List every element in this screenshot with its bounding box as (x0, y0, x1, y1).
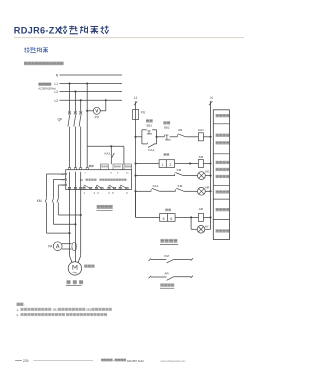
bypass contactor KM pole 3 (57, 185, 82, 216)
fault relay coil AR (198, 207, 210, 221)
block cell: programmable output (216, 190, 230, 193)
node N rail (56, 74, 122, 78)
svg-text:AR: AR (178, 128, 183, 132)
node L3 rail (54, 99, 122, 103)
svg-text:FU: FU (141, 110, 146, 114)
svg-text:KM: KM (199, 155, 204, 159)
svg-text:QF: QF (58, 118, 64, 122)
svg-text:HR: HR (205, 186, 209, 190)
svg-text:L1: L1 (134, 96, 138, 100)
circuit breaker QF label (58, 118, 64, 122)
starter internal function labels R2 etc (80, 179, 127, 183)
wire: control feeder vertical (134, 120, 136, 218)
footer rule (33, 359, 93, 361)
svg-text:9: 9 (117, 172, 119, 174)
node L1 tap for control circuit (134, 96, 138, 109)
svg-text:KA1: KA1 (148, 148, 154, 152)
block cell: fault output (216, 208, 230, 211)
footer service hotline (101, 359, 144, 364)
starter output terminals 5-6 for fault row (136, 191, 176, 221)
starter bottom terminals with numbers (68, 187, 128, 195)
auxiliary contact KM normally closed (176, 184, 198, 191)
svg-text:L1: L1 (54, 82, 58, 86)
svg-text:5: 5 (112, 192, 114, 195)
caption: main circuit underlined (66, 280, 83, 285)
subtitle: conventional one-to-one control wiring diagram (24, 62, 64, 66)
starter internal output relay contacts (84, 185, 127, 189)
fault relay contact AR in start row (177, 128, 198, 137)
svg-text:www.chintpeople.com: www.chintpeople.com (161, 359, 186, 363)
section label: application atlas (24, 47, 48, 52)
svg-text:10: 10 (126, 172, 129, 174)
svg-text:1.: 1. (17, 308, 20, 312)
caption: signal output underlined (160, 283, 174, 288)
starter internal phase conductors (70, 172, 81, 190)
svg-text::: : (24, 303, 25, 307)
stop pushbutton SB2 with label (163, 121, 177, 140)
relay coil KA1 (198, 128, 211, 141)
caption: soft starter underlined (96, 205, 112, 211)
svg-text:HG: HG (205, 170, 210, 174)
svg-text:SB2: SB2 (164, 126, 170, 130)
svg-text:L2: L2 (54, 90, 58, 94)
page title RDJR6-ZX series soft start (14, 25, 109, 35)
caption: control circuit underlined (160, 239, 178, 244)
svg-text:RDJR6-ZX: RDJR6-ZX (14, 25, 62, 35)
bypass contactor KM pole 2 (52, 180, 76, 226)
indicator lamp HY fault (191, 217, 210, 233)
svg-text:KM: KM (37, 199, 42, 203)
latching contact KA1 parallel with SB1 (142, 130, 165, 152)
wire: motor feeders from starter output (70, 189, 81, 262)
note line 2 (17, 313, 108, 317)
svg-text:AC380V(50Hz): AC380V(50Hz) (38, 86, 56, 90)
auxiliary contact KM for run lamp (136, 168, 198, 176)
title underline rule (14, 36, 244, 39)
starter top phase terminals (68, 165, 93, 170)
footer website (161, 359, 186, 363)
svg-text:AR: AR (199, 207, 204, 211)
svg-text:8: 8 (111, 172, 113, 174)
block cell: analog output (216, 229, 230, 232)
svg-text:6: 6 (170, 217, 172, 221)
svg-text:2: 2 (169, 163, 171, 167)
svg-text:6: 6 (126, 192, 128, 195)
svg-text:226: 226 (23, 359, 29, 363)
notes heading (17, 303, 25, 307)
wire: L1 drop to starter control feed (87, 84, 124, 165)
svg-text:SB2: SB2 (86, 308, 92, 312)
contactor coil KM (198, 155, 210, 168)
svg-text:5: 5 (163, 217, 165, 221)
wire from terminals to AR coil (175, 216, 198, 218)
terminal function block of soft starter (213, 110, 229, 240)
motor M with label (68, 262, 94, 275)
svg-text:PA: PA (48, 244, 53, 248)
svg-text:HY: HY (205, 224, 209, 228)
breaker QF pole 1 with wire from L1 (68, 82, 71, 167)
signal contact AR dry output (149, 271, 193, 280)
fuse FU (133, 110, 146, 120)
block cell: instant stop signal (216, 114, 230, 117)
auxiliary contact KA1 for stop lamp (136, 184, 176, 191)
starter output terminals 1-2 for row KM (136, 153, 175, 167)
svg-text:AR: AR (165, 271, 170, 275)
wire: L1 drop terminal into starter (86, 146, 88, 169)
svg-text:1: 1 (162, 163, 164, 167)
svg-text:SB1: SB1 (146, 123, 152, 127)
wire with arrow to KM coil (175, 162, 199, 165)
svg-text:2: 2 (94, 192, 96, 195)
soft starter unit box (66, 170, 132, 190)
breaker QF pole 2 with wire from L2 (74, 90, 77, 167)
svg-text:KM: KM (177, 168, 182, 172)
svg-text:KA1: KA1 (153, 184, 159, 188)
note line 1 (17, 308, 112, 312)
block cell: bypass contactor run signal (216, 161, 230, 178)
signal contact KM dry output (149, 254, 193, 263)
relay contact KA1 (external) feeding starter terminal (104, 146, 114, 164)
svg-text:L3: L3 (54, 99, 58, 103)
svg-text:N: N (56, 74, 59, 78)
svg-text:A1: A1 (61, 173, 64, 176)
svg-text:400 887 1122: 400 887 1122 (127, 359, 144, 363)
svg-text:3: 3 (97, 192, 99, 195)
bypass contactor KM label (37, 199, 42, 203)
ammeter PA (48, 242, 71, 251)
starter top control terminal group boxes (85, 164, 132, 174)
svg-text:KM: KM (164, 254, 169, 258)
svg-text:2.: 2. (17, 313, 20, 317)
current transformer CT on phase (72, 242, 77, 251)
svg-text:PV: PV (95, 115, 100, 119)
node L2 rail (54, 90, 122, 94)
breaker QF pole 3 with wire from L3 (79, 99, 82, 167)
node L1 rail with power input label (38, 82, 122, 90)
bypass contactor KM pole 1 (45, 174, 70, 234)
svg-text:KA1: KA1 (104, 152, 110, 156)
svg-text:SB1: SB1 (53, 308, 59, 312)
indicator lamp HG running (198, 170, 211, 180)
node N tap for control circuit (209, 96, 213, 229)
footer page number (15, 359, 29, 363)
svg-text:4: 4 (108, 192, 110, 195)
block cell: soft starter start stop (216, 134, 230, 145)
svg-text:KM: KM (178, 184, 183, 188)
svg-text:7: 7 (85, 172, 87, 174)
start pushbutton SB1 with label (136, 119, 157, 144)
starter left side terminals for bypass (61, 173, 66, 187)
svg-text:1: 1 (84, 192, 86, 195)
svg-text:KA1: KA1 (198, 128, 204, 132)
svg-text:R2: R2 (80, 179, 84, 182)
svg-text:N: N (210, 96, 213, 100)
voltmeter PV across L1-L3 (86, 82, 107, 119)
indicator lamp HR stopped (198, 186, 211, 196)
